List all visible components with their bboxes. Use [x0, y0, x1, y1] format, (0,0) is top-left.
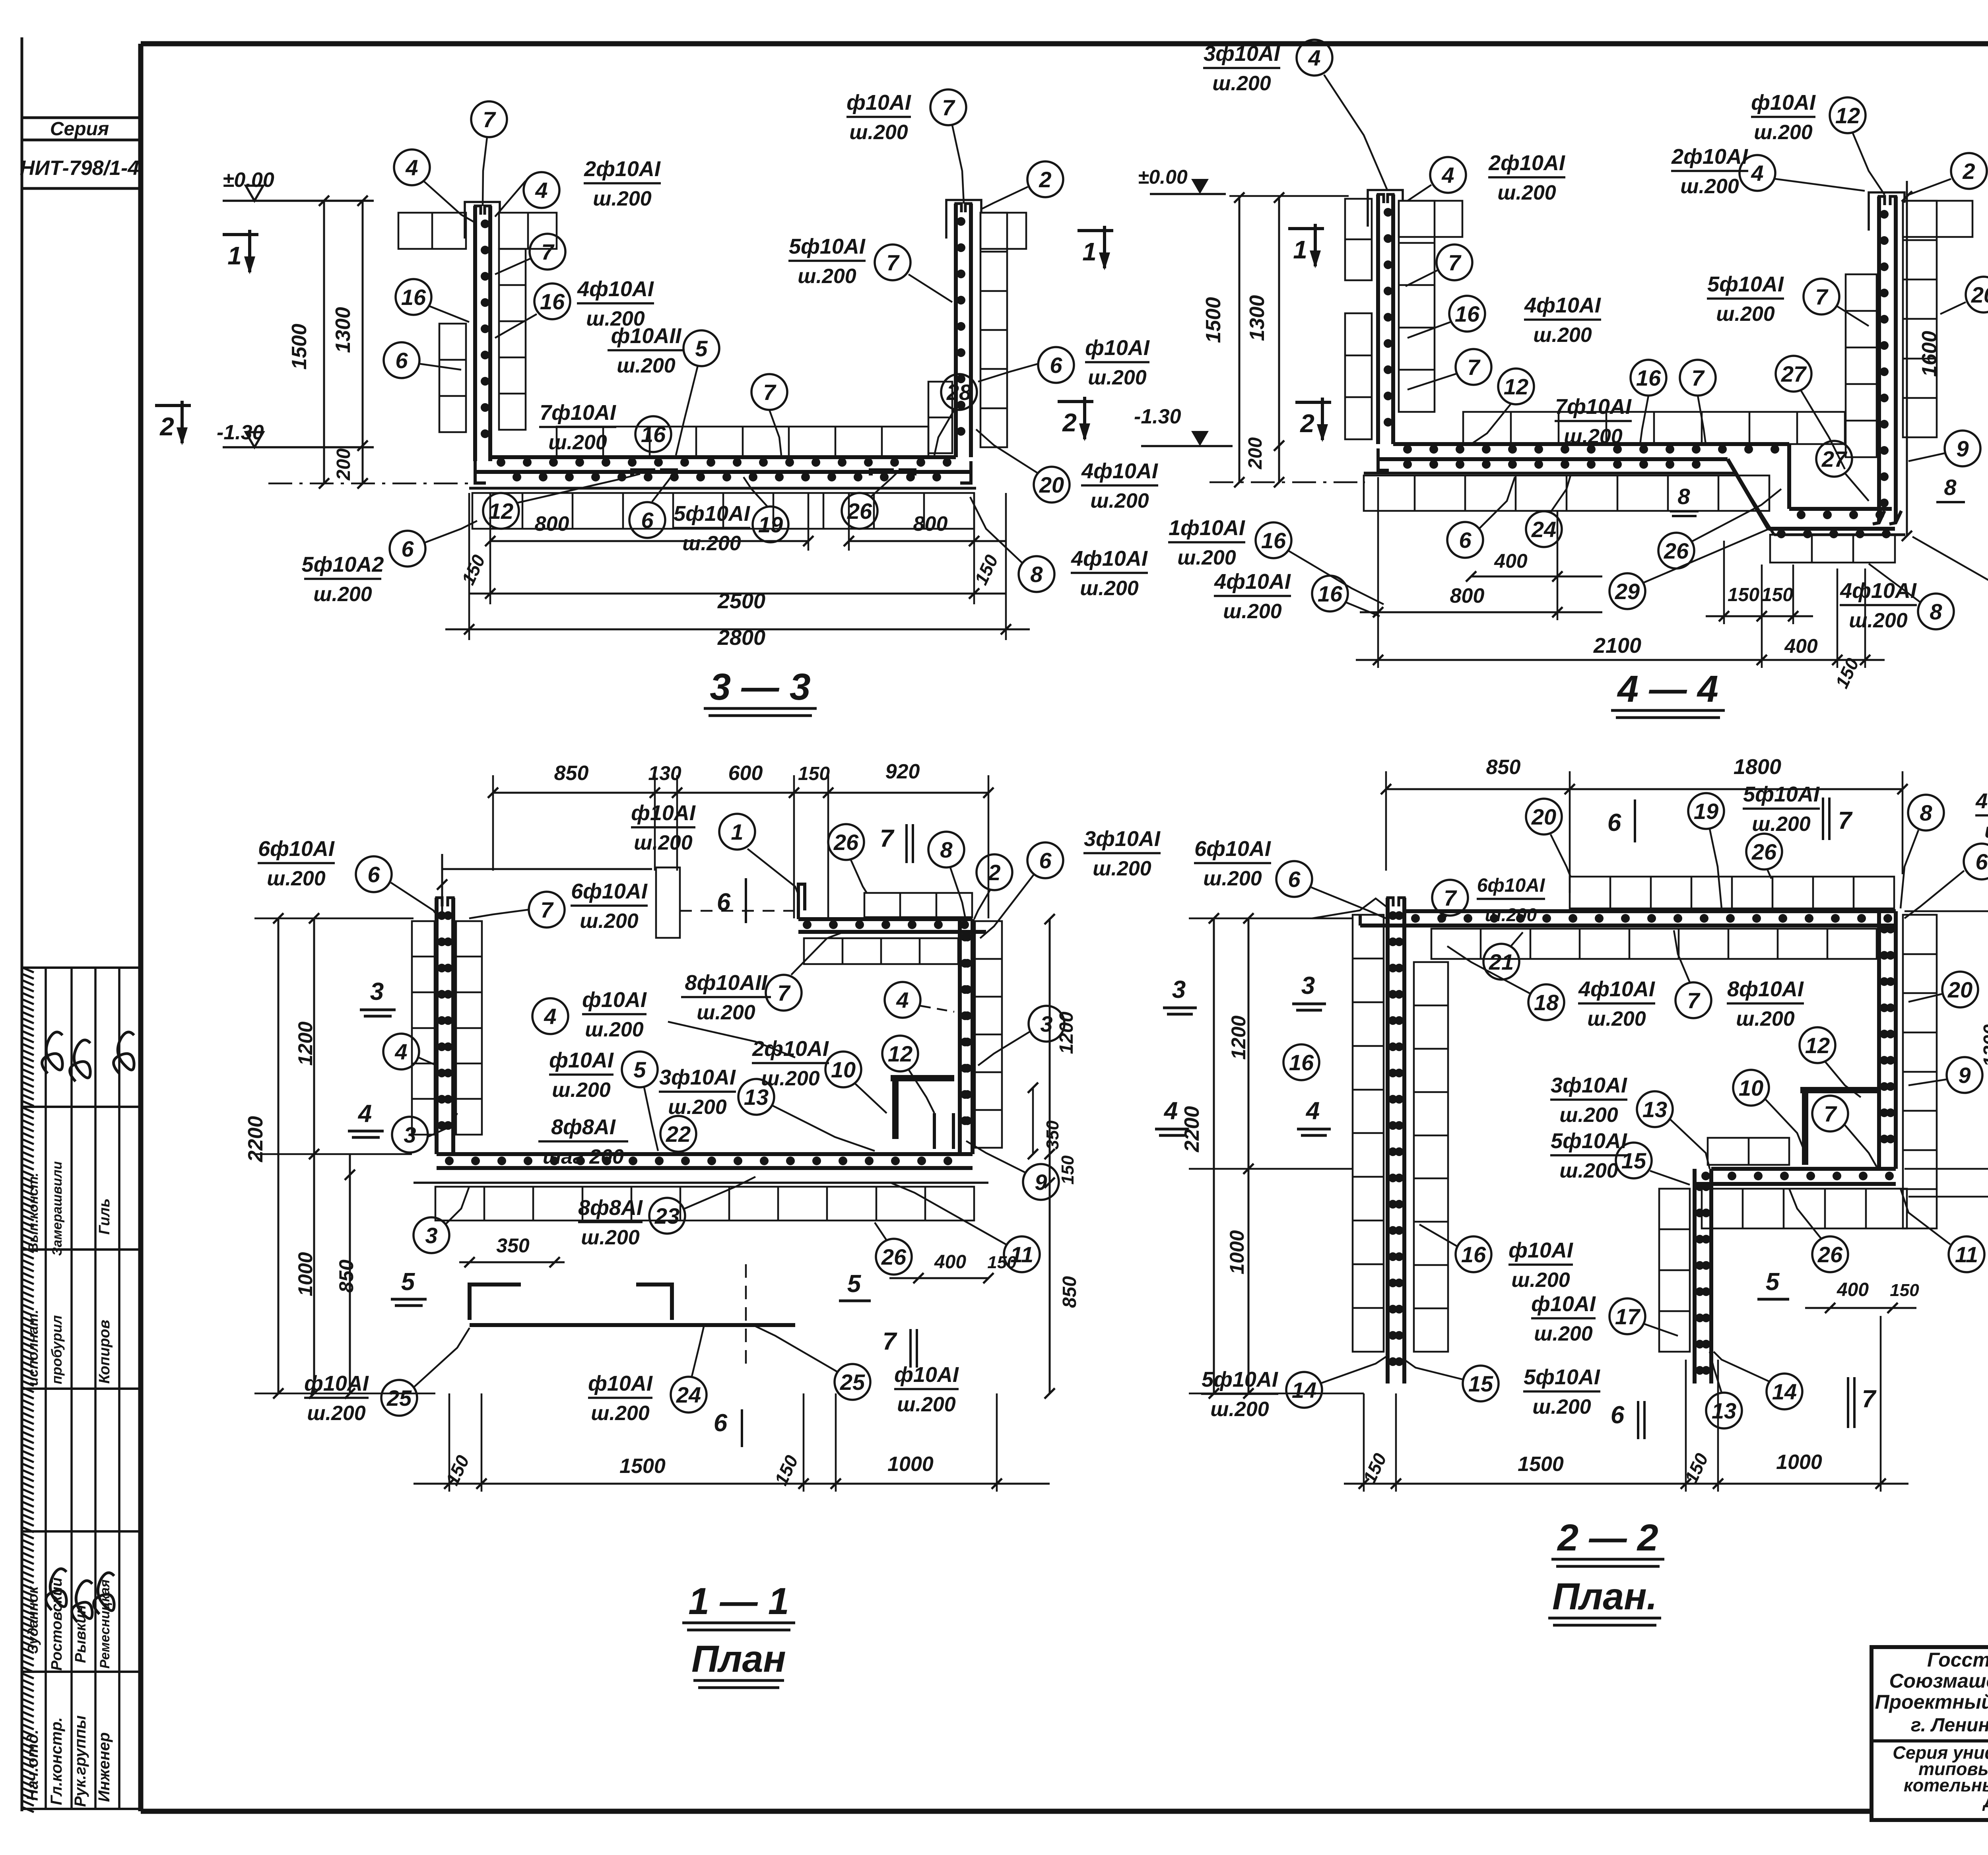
svg-text:2ф10AI: 2ф10AI	[584, 157, 661, 181]
svg-text:9: 9	[1956, 436, 1969, 461]
svg-text:ш.200: ш.200	[634, 831, 693, 854]
signature table hatch col	[23, 968, 34, 1812]
section 3-3 right wall cap	[946, 200, 981, 239]
svg-text:7: 7	[883, 1328, 897, 1355]
svg-text:7: 7	[483, 107, 496, 132]
svg-text:6: 6	[1050, 353, 1062, 378]
callout 6 plan 2-2 right	[1905, 844, 1988, 918]
svg-text:4: 4	[1308, 45, 1320, 70]
svg-text:150: 150	[1761, 584, 1793, 605]
svg-text:26: 26	[1751, 839, 1777, 864]
svg-text:1500: 1500	[288, 324, 311, 370]
callout 7 4-4 wall2	[1408, 349, 1491, 390]
svg-text:7: 7	[1824, 1101, 1837, 1126]
svg-text:ш.200: ш.200	[1177, 546, 1236, 569]
svg-text:800: 800	[535, 512, 569, 536]
svg-text:400: 400	[1494, 550, 1528, 572]
svg-text:1 — 1: 1 — 1	[688, 1580, 789, 1622]
svg-text:6: 6	[1607, 809, 1621, 836]
svg-text:5: 5	[847, 1270, 862, 1298]
plan 1-1 section mark 6 bottom	[714, 1409, 742, 1447]
plan 2-2 vdim 2200	[1180, 913, 1219, 1399]
callout 6 left	[384, 342, 461, 378]
svg-text:7: 7	[942, 95, 955, 120]
svg-text:400: 400	[934, 1252, 966, 1273]
callout 4 right label 2f10AI	[495, 172, 559, 217]
svg-text:Ремесницкая: Ремесницкая	[97, 1579, 113, 1669]
signatures squiggles row1	[38, 1030, 145, 1085]
plan 1-1 section mark 3 left	[360, 978, 396, 1016]
svg-text:7: 7	[1448, 250, 1462, 275]
svg-text:ш.200: ш.200	[1534, 1322, 1593, 1345]
svg-text:ф10AI: ф10AI	[1751, 91, 1816, 114]
callout 7 for 5f10AI	[875, 244, 952, 302]
svg-text:25: 25	[840, 1370, 865, 1395]
svg-text:ш.200: ш.200	[1212, 72, 1271, 95]
svg-text:7: 7	[540, 897, 554, 922]
svg-text:5: 5	[633, 1057, 646, 1082]
svg-text:350: 350	[1043, 1120, 1062, 1150]
plan 2-2 dim 400 150	[1805, 1279, 1919, 1313]
table rotated names row5	[25, 1578, 113, 1671]
svg-text:16: 16	[1636, 365, 1661, 390]
plan 2-2 dim ext left2	[1189, 918, 1364, 1393]
svg-text:ш.200: ш.200	[1736, 1007, 1795, 1030]
svg-text:ш.200: ш.200	[591, 1402, 650, 1425]
svg-text:ш.200: ш.200	[581, 1226, 640, 1249]
svg-text:8: 8	[1030, 562, 1043, 587]
section 4-4 blocks below upper slab	[1364, 475, 1769, 511]
section 4-4 blocks left-of-right-wall	[1846, 274, 1877, 457]
svg-text:ш.200: ш.200	[1716, 303, 1775, 326]
label 5f10AI below + callout 19	[673, 477, 788, 555]
callout 9 plan 2-2	[1908, 1057, 1982, 1093]
label 4f10AI	[577, 277, 654, 330]
section 3-3 dim extension lines	[268, 201, 469, 483]
label 8f10AII + callout 7 plan 1-1	[681, 932, 843, 1024]
svg-text:6ф10AI: 6ф10AI	[1194, 837, 1271, 861]
plan 2-2 blocks above top wall	[1570, 877, 1894, 908]
plan 2-2 blocks below top wall	[1431, 929, 1877, 959]
svg-text:24: 24	[1531, 517, 1556, 542]
svg-text:ш.200: ш.200	[1559, 1104, 1618, 1127]
svg-text:4ф10AI: 4ф10AI	[1214, 570, 1291, 594]
svg-text:2ф10AI: 2ф10AI	[752, 1037, 829, 1061]
svg-text:7ф10AI: 7ф10AI	[1555, 395, 1632, 419]
svg-text:ф10AI: ф10AI	[631, 801, 696, 825]
svg-text:ш.200: ш.200	[580, 910, 639, 933]
svg-text:3: 3	[1172, 976, 1186, 1003]
section 3-3 flag 1 left	[223, 230, 258, 274]
svg-text:850: 850	[335, 1259, 357, 1293]
plan 1-1 rebar piece lower	[470, 1323, 795, 1327]
svg-text:8: 8	[1930, 599, 1942, 624]
svg-text:7ф10AI: 7ф10AI	[540, 401, 616, 425]
callout 2 4-4 + label 3f10AI	[1908, 131, 1988, 195]
svg-text:5ф10AI: 5ф10AI	[1707, 272, 1784, 296]
callout 19 + label 5f10AI plan 2-2	[1688, 782, 1820, 908]
section 3-3 hdim 2500	[469, 588, 1006, 613]
label f10AI mid + callout 12	[1751, 91, 1885, 195]
plan 2-2 blocks right col	[1903, 915, 1937, 1228]
callout 26 4-4	[1658, 489, 1781, 569]
title block outer	[1872, 1647, 1988, 1820]
svg-text:5ф10AI: 5ф10AI	[1551, 1129, 1627, 1153]
svg-text:2800: 2800	[717, 626, 765, 650]
svg-text:ш.200: ш.200	[1752, 813, 1811, 836]
svg-text:котельных с котлами: котельных с котлами	[1904, 1775, 1988, 1795]
plan 2-2 right wall rebar	[1879, 911, 1896, 1169]
section 3-3 flag 2 right	[1058, 397, 1233, 446]
section 3-3 blocks right-of-left-wall top	[499, 213, 557, 249]
svg-text:13: 13	[1642, 1097, 1667, 1122]
section 3-3 slab bottom dash mark 26	[871, 470, 914, 475]
section 3-3 blocks below slab	[472, 493, 974, 529]
svg-text:26: 26	[881, 1244, 907, 1269]
section 4-4 vdim 1600	[1902, 181, 1941, 541]
callout 16 + label f10AI plan 2-2	[1419, 1224, 1573, 1292]
svg-text:23: 23	[654, 1203, 679, 1228]
svg-text:ш.200: ш.200	[585, 1018, 644, 1041]
plan 2-2 blocks left col outer	[1353, 915, 1384, 1352]
callout 16 right	[495, 283, 570, 338]
svg-text:8: 8	[1920, 800, 1932, 825]
svg-text:26: 26	[1817, 1242, 1843, 1267]
callout 10 plan 2-2	[1733, 1070, 1805, 1153]
label 8f8AI + callout 22	[538, 1115, 696, 1168]
plan 1-1 vdim 850	[335, 1154, 357, 1399]
svg-text:3: 3	[425, 1223, 437, 1248]
svg-text:10: 10	[1739, 1075, 1763, 1100]
plan 1-1 blocks left col outer	[412, 921, 435, 1135]
plan 1-1 blocks right col	[975, 921, 1002, 1148]
svg-text:200: 200	[333, 448, 354, 481]
plan 1-1 top-left edge line	[437, 854, 652, 918]
svg-text:ш.200: ш.200	[1680, 175, 1739, 198]
plan 1-1 section mark 7 bottom	[883, 1328, 917, 1368]
title 3-3	[704, 666, 817, 716]
svg-text:исполнат.: исполнат.	[25, 1310, 41, 1386]
plan 2-2 inner corner thick L	[1800, 1090, 1877, 1165]
plan 1-1 blocks left col inner	[456, 921, 482, 1135]
section 4-4 upper slab bottom rebar	[1378, 448, 1728, 470]
svg-text:8ф10AI: 8ф10AI	[1727, 977, 1804, 1001]
svg-text:Проектный институт N1: Проектный институт N1	[1875, 1691, 1988, 1713]
callout 26 below slab	[842, 473, 897, 529]
svg-text:ш.200: ш.200	[1093, 857, 1151, 880]
callout 21 plan 2-2	[1483, 932, 1523, 980]
callout 16 4-4 slab	[1631, 360, 1666, 444]
plan 1-1 dim ext left	[254, 918, 435, 1393]
section 4-4 blocks right-of-right-wall	[1903, 201, 1972, 437]
plan 2-2 section mark 7 bottom	[1848, 1377, 1877, 1428]
callout 13 plan 1-1 + label 3f10AI	[659, 1065, 875, 1151]
callout 26 plan 1-1	[828, 824, 867, 893]
svg-text:ш.200: ш.200	[1564, 425, 1623, 448]
svg-text:4: 4	[1751, 161, 1763, 186]
svg-text:19: 19	[758, 512, 783, 537]
svg-text:4ф10AI: 4ф10AI	[577, 277, 654, 301]
svg-text:2: 2	[1962, 159, 1975, 184]
section 3-3 left wall rebar	[475, 206, 490, 461]
plan 1-1 vdim 1200 1000	[294, 913, 319, 1399]
svg-text:400: 400	[1784, 635, 1818, 657]
section 4-4 right wall rebar	[1873, 196, 1901, 524]
svg-text:1200: 1200	[294, 1021, 316, 1065]
svg-text:2: 2	[988, 860, 1000, 885]
plan 1-1 blocks bottom row	[435, 1187, 974, 1220]
callout 15 plan 2-2	[1616, 1143, 1690, 1185]
svg-text:920: 920	[885, 760, 920, 783]
svg-text:5ф10AI: 5ф10AI	[674, 502, 750, 526]
svg-text:ш.200: ш.200	[1984, 819, 1988, 842]
section 4-4 blocks right-of-left-wall	[1399, 201, 1462, 412]
svg-text:7: 7	[1687, 988, 1701, 1013]
svg-text:ф10АI: ф10АI	[588, 1372, 653, 1395]
svg-text:350: 350	[496, 1234, 530, 1257]
plan 2-2 lower vert wall rebar	[1695, 1169, 1711, 1383]
svg-text:Нач.отд.: Нач.отд.	[24, 1729, 41, 1801]
callout 4 plan 1-1 left wall	[383, 1034, 437, 1069]
svg-text:ф10АI: ф10АI	[304, 1372, 369, 1395]
callout 15 + label 5f10AI bottom	[1404, 1360, 1600, 1418]
table rotated labels row6	[24, 1715, 113, 1807]
svg-text:11: 11	[1955, 1242, 1978, 1267]
svg-text:18: 18	[1534, 990, 1559, 1015]
svg-text:ш.200: ш.200	[1088, 366, 1147, 389]
section 4-4 lower slab concrete bottom	[1774, 534, 1905, 536]
svg-text:4ф10AI: 4ф10AI	[1524, 293, 1601, 317]
callout 8 plan 1-1	[928, 832, 965, 918]
callout 12 below slab	[483, 474, 640, 529]
svg-text:4: 4	[535, 178, 547, 203]
title block left divider	[1872, 1739, 1988, 1742]
callout 7 4-4 slab	[1680, 360, 1716, 444]
svg-text:ш.200: ш.200	[548, 431, 607, 454]
svg-text:26: 26	[1664, 538, 1689, 563]
section 4-4 level +-0.00	[1138, 166, 1226, 194]
callout 26 plan 2-2 bottom	[1789, 1189, 1848, 1272]
svg-text:ш.200: ш.200	[313, 583, 372, 606]
section 4-4 section mark 8 left	[1670, 484, 1699, 516]
callout 20 4-4	[1940, 277, 1988, 314]
plan 2-2 blocks below lower wall	[1702, 1189, 1907, 1228]
svg-text:16: 16	[401, 285, 426, 310]
svg-text:5ф10А2: 5ф10А2	[302, 553, 384, 576]
section 4-4 hdim 2100	[1356, 634, 1885, 665]
plan 2-2 top dim	[1381, 755, 1908, 893]
plan 2-2 section mark 6 bottom	[1611, 1401, 1644, 1439]
callout 11 + label 4f10AI plan 2-2	[1901, 1189, 1988, 1282]
callout 27 4-4 lower	[1816, 441, 1869, 501]
plan 1-1 vdim 2200	[244, 913, 283, 1399]
svg-text:ф10AI: ф10AI	[549, 1048, 614, 1072]
label 3f10AI top + callout 4	[1203, 40, 1388, 191]
section 3-3 blocks left-of-left-wall	[439, 324, 466, 432]
label 5f10AI right top	[788, 235, 866, 288]
plan 2-2 section mark 4 left	[1297, 1097, 1331, 1135]
title 1-1	[682, 1580, 795, 1688]
svg-text:ш.200: ш.200	[1849, 609, 1908, 632]
callout 16 left	[396, 279, 469, 322]
signature table grid	[22, 968, 141, 1809]
label 7f10AI slab	[539, 401, 616, 454]
svg-text:6: 6	[395, 348, 408, 373]
label f10AII mid	[608, 324, 685, 377]
callout 24 4-4	[1526, 475, 1571, 547]
callout 3 below	[414, 1187, 469, 1253]
svg-text:26: 26	[833, 830, 859, 855]
callout 8 4-4 + label 4f10AI	[1840, 564, 1954, 632]
svg-text:8: 8	[940, 837, 953, 862]
svg-text:14: 14	[1292, 1378, 1316, 1403]
svg-text:1000: 1000	[887, 1453, 934, 1476]
svg-text:600: 600	[728, 762, 763, 785]
plan 2-2 lower horiz wall rebar	[1695, 1169, 1896, 1184]
plan 1-1 section mark 6 top	[717, 878, 746, 923]
plan 1-1 inner corner thick L	[891, 1078, 954, 1139]
svg-text:4ф10AI: 4ф10AI	[1578, 977, 1655, 1001]
plan 2-2 section mark 5 inner	[1757, 1268, 1789, 1299]
svg-text:ш.200: ш.200	[1533, 324, 1592, 347]
plan 1-1 blocks top row below wall	[804, 938, 958, 964]
svg-text:5ф10AI: 5ф10AI	[1743, 782, 1820, 806]
section 4-4 hdim 150 150	[1706, 584, 1813, 621]
svg-text:±0.00: ±0.00	[1138, 166, 1188, 188]
svg-text:4: 4	[394, 1039, 407, 1064]
svg-text:7: 7	[1862, 1385, 1877, 1413]
plan 2-2 section mark 3 left	[1292, 972, 1326, 1010]
svg-text:13: 13	[1712, 1398, 1736, 1423]
svg-text:1000: 1000	[1776, 1451, 1822, 1474]
svg-text:7: 7	[763, 380, 777, 405]
label f10AI w.200 + callout 5	[549, 1048, 658, 1151]
plan 1-1 vdim 350 150 right	[1028, 914, 1080, 1399]
svg-text:7: 7	[1815, 284, 1829, 309]
svg-text:3: 3	[1040, 1011, 1052, 1036]
svg-text:ш.200: ш.200	[1223, 600, 1282, 623]
svg-text:шаг 200: шаг 200	[543, 1145, 624, 1168]
svg-text:29: 29	[1615, 579, 1640, 604]
callout 9 plan 1-1	[966, 1141, 1059, 1200]
tb text seriya	[1893, 1742, 1988, 1811]
section 4-4 upper slab concrete bottom	[1364, 472, 1736, 475]
svg-text:7: 7	[1467, 355, 1481, 380]
table rotated row2	[26, 1161, 113, 1256]
section 4-4 upper slab top rebar	[1393, 444, 1789, 454]
svg-text:1200: 1200	[1056, 1011, 1077, 1054]
title 4-4	[1611, 668, 1725, 718]
callout 7 + label 6f10AI plan 1-1 top	[469, 879, 648, 933]
table rotated row3	[25, 1310, 113, 1386]
section 3-3 hdim 800 right	[844, 512, 1006, 588]
svg-text:8ф8АI: 8ф8АI	[578, 1196, 643, 1220]
label 5f10A2 + callout 6	[302, 521, 477, 606]
plan 1-1 rebar piece upper	[470, 1285, 672, 1320]
svg-text:ш.200: ш.200	[682, 532, 741, 555]
svg-text:6: 6	[367, 862, 380, 887]
plan 1-1 right wall rebar	[960, 919, 973, 1154]
svg-text:ф10AI: ф10AI	[1531, 1292, 1596, 1316]
section 4-4 bottom dim verticals	[1378, 477, 1865, 668]
section 3-3 dim verticals	[469, 493, 1006, 640]
svg-text:150: 150	[1058, 1155, 1077, 1185]
callout 16 4-4 + label 4f10AI	[1408, 293, 1601, 347]
callout 6 4-4 below	[1447, 477, 1515, 558]
svg-text:12: 12	[888, 1041, 912, 1066]
svg-text:4ф10AI: 4ф10AI	[1081, 459, 1158, 483]
sidebar box НИТ-798/1-4	[20, 157, 141, 188]
section 3-3 slab bottom rebar	[475, 461, 971, 483]
svg-text:26: 26	[847, 499, 872, 524]
section 3-3 slab top rebar	[490, 457, 956, 467]
section 3-3 flag 2 left	[155, 401, 374, 447]
section 3-3 hdim 2800	[445, 624, 1030, 650]
section 4-4 vdim 1300	[1245, 192, 1284, 487]
label f10AI top right + callout 7	[846, 89, 966, 204]
svg-text:ш.200: ш.200	[1511, 1269, 1570, 1292]
svg-text:Копиров: Копиров	[96, 1320, 113, 1384]
svg-text:27: 27	[1821, 446, 1848, 472]
svg-text:Вып.конст.: Вып.конст.	[26, 1173, 41, 1252]
section 4-4 flag 2 left	[1295, 398, 1331, 442]
label 5f10AI + callout 14 left	[1201, 1356, 1388, 1421]
section 3-3 blocks left-of-left-wall top	[398, 213, 466, 249]
svg-text:2ф10AI: 2ф10AI	[1488, 151, 1565, 175]
svg-text:8: 8	[1677, 484, 1690, 509]
svg-text:ш.200: ш.200	[267, 867, 326, 890]
callout 4 left of 3-3	[394, 149, 475, 223]
svg-text:4: 4	[405, 155, 418, 180]
plan 2-2 section mark 7 top	[1823, 797, 1853, 840]
svg-text:1500: 1500	[1518, 1453, 1564, 1476]
section 4-4 step diagonal	[1728, 444, 1789, 535]
svg-text:28: 28	[946, 380, 972, 405]
svg-text:4 — 4: 4 — 4	[1617, 668, 1718, 710]
plan 1-1 top wall rebar	[798, 884, 986, 932]
svg-text:3 — 3: 3 — 3	[710, 666, 810, 708]
plan 2-2 section mark 6 top	[1607, 799, 1635, 842]
label 3f10AI plan 1-1	[1083, 827, 1161, 880]
svg-text:±0.00: ±0.00	[223, 169, 274, 192]
svg-text:6: 6	[1611, 1401, 1625, 1429]
callout 3 plan 1-1 right	[978, 1006, 1064, 1065]
svg-text:ш.200: ш.200	[1090, 489, 1149, 512]
callout 12 plan 2-2	[1800, 1027, 1861, 1097]
callout 20 plan 2-2 top	[1526, 799, 1571, 877]
svg-text:7: 7	[1444, 885, 1457, 910]
section 4-4 left wall rebar	[1378, 194, 1393, 444]
svg-text:16: 16	[1261, 528, 1286, 553]
svg-text:ш.200: ш.200	[697, 1001, 755, 1024]
section 4-4 right wall cap	[1869, 192, 1905, 231]
svg-text:г. Ленинград 1967г.: г. Ленинград 1967г.	[1911, 1715, 1988, 1736]
svg-text:150: 150	[987, 1253, 1017, 1272]
svg-text:4ф10AI: 4ф10AI	[1071, 547, 1148, 570]
callout 29 4-4	[1609, 529, 1769, 609]
svg-text:12: 12	[489, 499, 513, 524]
svg-text:850: 850	[1059, 1276, 1080, 1308]
svg-text:25: 25	[386, 1385, 412, 1411]
svg-text:Гл.констр.: Гл.констр.	[48, 1717, 65, 1805]
callout 8 + label 4f10AI plan 2-2	[1901, 789, 1988, 908]
svg-text:800: 800	[1450, 584, 1485, 607]
plan 1-1 left wall rebar	[437, 898, 453, 1154]
svg-text:13: 13	[744, 1085, 769, 1110]
svg-text:12: 12	[1504, 374, 1528, 399]
svg-text:6ф10AI: 6ф10AI	[571, 879, 648, 903]
callout 28	[934, 374, 977, 455]
